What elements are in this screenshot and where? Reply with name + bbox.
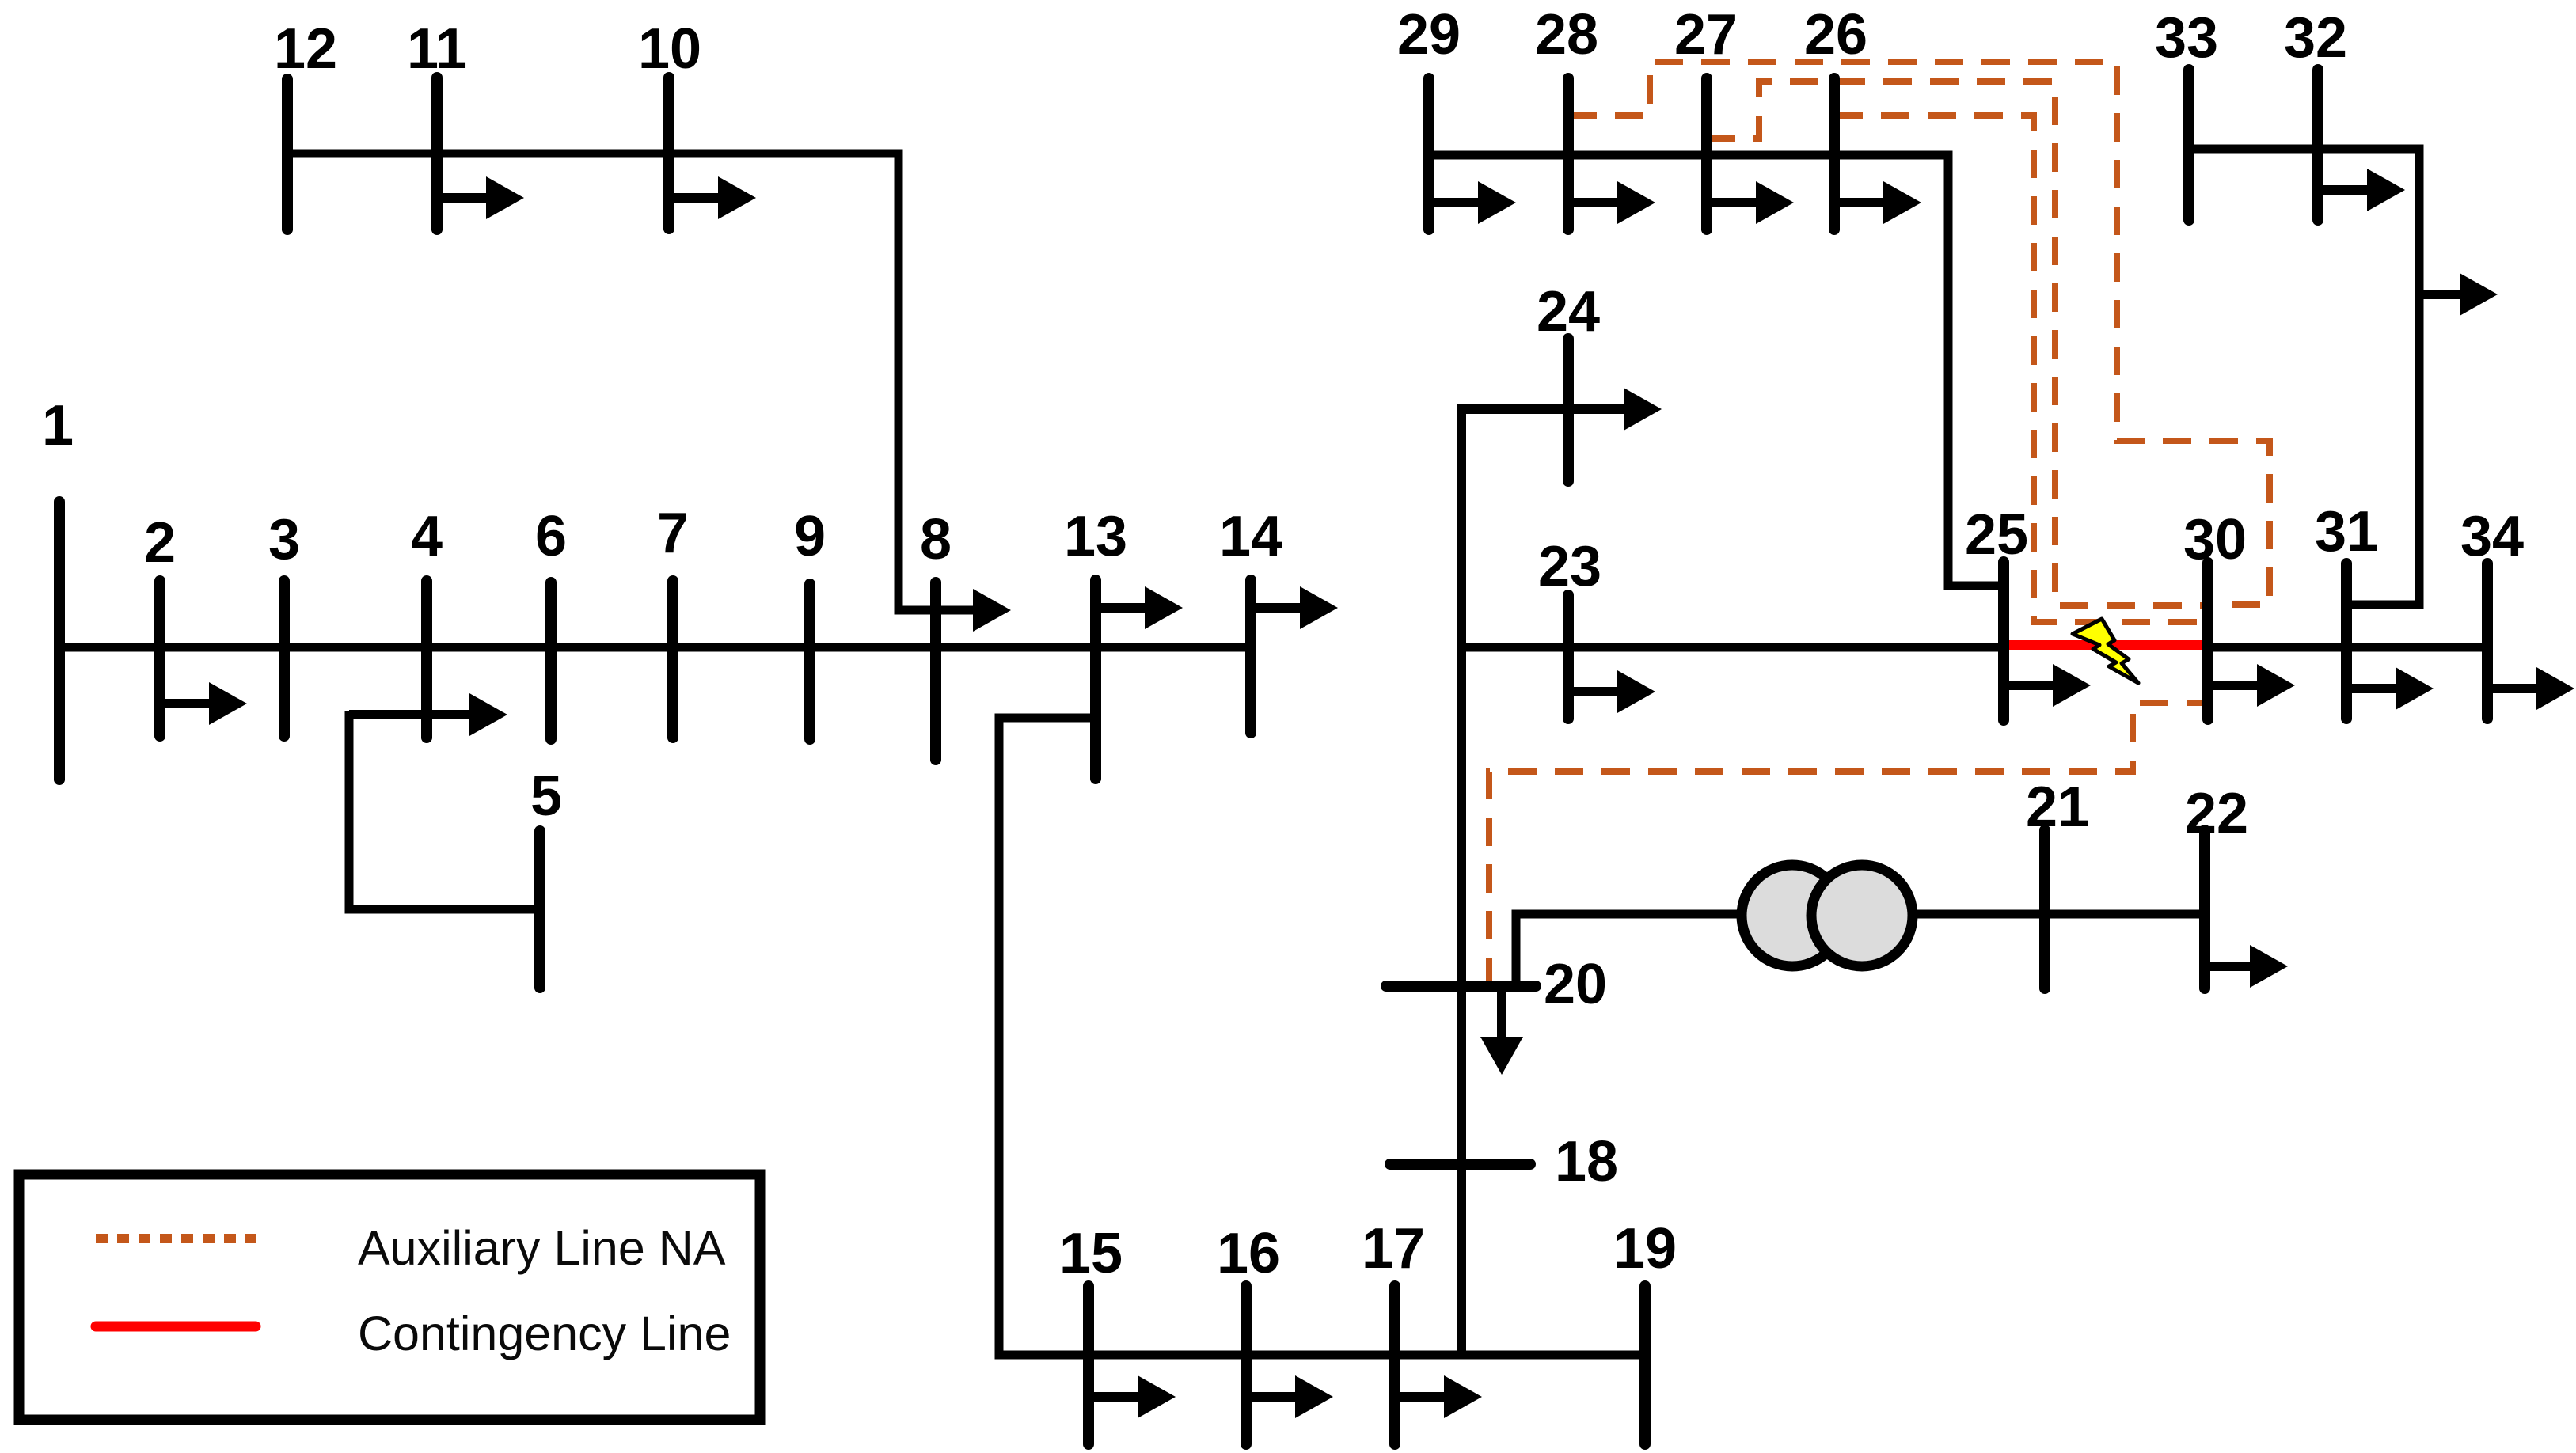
legend box [19,1174,760,1420]
load arrow bus 14 [1251,603,1305,613]
load arrow on bus31 riser [2419,290,2464,299]
svg-text:27: 27 [1674,3,1738,66]
svg-text:19: 19 [1613,1217,1677,1280]
svg-text:24: 24 [1537,280,1600,343]
wire: main right feeder 30-34 [2208,643,2487,652]
svg-text:21: 21 [2026,776,2089,839]
svg-text:26: 26 [1804,3,1867,66]
svg-text:5: 5 [530,764,562,828]
bus 17 [1389,1286,1400,1444]
bus 11 [431,78,443,230]
svg-text:29: 29 [1397,3,1461,66]
svg-text:23: 23 [1538,535,1601,598]
bus 25 [1998,562,2009,720]
bus 5 [534,831,545,988]
svg-text:7: 7 [657,502,689,565]
load arrow bus 34 [2487,684,2541,693]
bus 21 [2039,830,2050,988]
load arrow bus 22 [2205,962,2255,971]
svg-text:1: 1 [42,394,74,457]
bus 29 [1423,78,1434,230]
svg-text:22: 22 [2185,782,2248,845]
bus 8 [930,582,941,760]
svg-text:9: 9 [794,505,826,568]
legend auxiliary line sample (orange dotted) [96,1234,256,1243]
svg-text:30: 30 [2183,508,2247,571]
load arrow bus 10 [669,193,723,203]
load arrow bus 2 [160,699,214,708]
load arrow bus 20 (down) [1497,986,1506,1041]
bus 15 [1083,1286,1094,1444]
transformer T1 20-21 (two overlapping circles) [1742,865,1913,966]
bus 33 [2183,70,2194,220]
bus 23 [1563,595,1574,719]
svg-text:Auxiliary Line NA: Auxiliary Line NA [358,1221,726,1275]
svg-text:14: 14 [1219,505,1282,568]
wire: main left feeder bus1-bus14 [59,643,1251,652]
load arrow bus 25 [2004,681,2057,690]
bus 2 [154,581,165,736]
bus 32 [2312,70,2323,220]
load arrow bus 30 [2208,681,2262,690]
bus 12 [282,79,293,230]
svg-text:20: 20 [1544,953,1607,1016]
svg-text:25: 25 [1965,503,2028,567]
svg-text:34: 34 [2460,505,2524,568]
svg-text:Contingency Line: Contingency Line [358,1307,731,1360]
bus 13 [1090,580,1101,779]
svg-text:6: 6 [535,505,567,568]
svg-text:8: 8 [920,508,952,571]
bus 6 [545,582,557,739]
bus 7 [667,581,678,738]
bus 30 [2202,563,2213,719]
svg-text:15: 15 [1059,1222,1123,1285]
bus 1 [54,502,65,780]
svg-text:33: 33 [2155,6,2218,70]
legend contingency line sample (red) [96,1322,256,1332]
bus 14 [1245,580,1256,733]
wire: branch bus4 to bus5 [349,711,540,909]
svg-text:3: 3 [268,508,300,571]
wire: bus13 branch down to bottom feeder 15-16-17-19 [999,718,1645,1355]
load arrow bus 13 [1096,603,1149,613]
wire: feeder 29-28-27-26 with drop into bus25 [1429,155,2004,586]
svg-text:18: 18 [1555,1130,1618,1193]
load arrow bus 24 (through bar) [1615,404,1628,414]
bus 19 [1639,1286,1651,1444]
load arrow bus 23 [1568,687,1622,696]
wire: trunk 24-23-20-18 vertical with bus24 stem [1461,409,1620,1355]
auxiliary line NA bus28-bus30 [1568,62,2270,605]
svg-text:31: 31 [2315,500,2378,563]
bus 24 [1563,339,1574,481]
load arrow bus 15 [1089,1392,1142,1402]
contingency line 25-30 (red) [2004,640,2208,650]
svg-text:13: 13 [1064,505,1127,568]
bus 20 (horizontal bar) [1386,981,1536,992]
svg-text:12: 12 [274,17,337,81]
bus 27 [1701,78,1712,230]
bus 4 [421,581,432,738]
svg-text:32: 32 [2284,6,2347,70]
bus 3 [279,581,290,736]
load arrow bus 31 [2346,684,2400,693]
load arrow bus 29 [1429,198,1483,207]
bus 26 [1829,78,1840,230]
svg-text:28: 28 [1535,3,1598,66]
load arrow bus 17 [1395,1392,1449,1402]
load arrow bus 4 [349,710,474,719]
load arrow bus 16 [1246,1392,1300,1402]
svg-text:11: 11 [407,17,467,81]
svg-text:10: 10 [638,17,701,81]
bus 16 [1241,1286,1252,1444]
svg-text:2: 2 [144,511,176,575]
wire: main right feeder trunk-25 [1461,643,2004,652]
auxiliary line NA bus27-bus30 [1707,82,2202,605]
bus 10 [663,78,674,229]
load arrow bus 32 [2318,185,2372,195]
load arrow bus 27 [1707,198,1761,207]
load arrow bus 26 [1834,198,1888,207]
load arrow bus 28 [1568,198,1622,207]
load arrow bus 11 [437,193,491,203]
bus 18 (horizontal bar) [1390,1159,1530,1170]
auxiliary line NA bus26-bus30 [1834,116,2202,622]
svg-text:17: 17 [1362,1217,1425,1280]
wire: feeder 12-11-10 with drop to bus8 and load arrow [287,154,978,610]
svg-text:4: 4 [411,505,443,568]
auxiliary line NA bus20-bus30 [1489,703,2202,986]
bus 31 [2341,563,2352,719]
svg-text:16: 16 [1217,1222,1280,1285]
bus 9 [804,584,815,739]
fault lightning bolt on line 25-30 [2073,619,2138,683]
bus 34 [2482,563,2493,719]
wire: feeder 33-32 with drop into bus31 [2189,149,2419,605]
wire: bus20 riser and transformer line 20-21-22 [1516,914,2205,986]
bus 22 [2199,830,2210,988]
bus 28 [1563,78,1574,230]
